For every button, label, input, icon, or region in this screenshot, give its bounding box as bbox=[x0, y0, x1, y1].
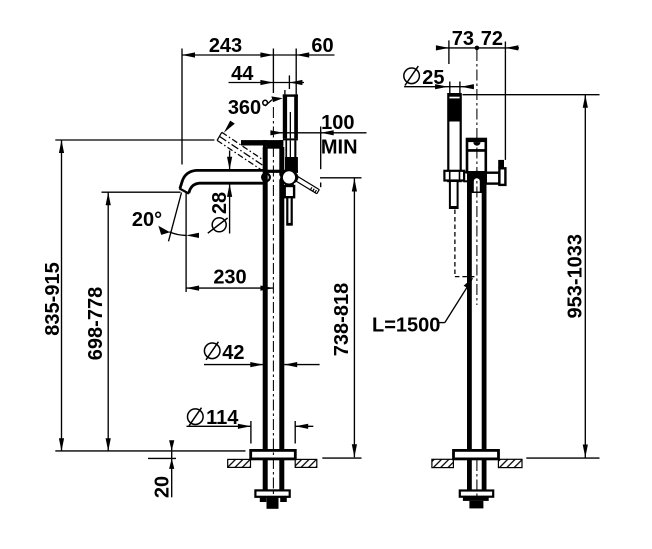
svg-text:42: 42 bbox=[222, 342, 244, 364]
svg-text:28: 28 bbox=[209, 192, 231, 214]
svg-text:230: 230 bbox=[213, 267, 246, 289]
svg-text:25: 25 bbox=[422, 67, 444, 89]
svg-text:360°: 360° bbox=[228, 97, 269, 119]
svg-text:738-818: 738-818 bbox=[331, 283, 353, 356]
svg-text:243: 243 bbox=[209, 35, 242, 57]
svg-text:72: 72 bbox=[481, 28, 503, 50]
svg-text:20°: 20° bbox=[132, 209, 162, 231]
svg-text:114: 114 bbox=[206, 407, 239, 429]
svg-text:L=1500: L=1500 bbox=[372, 315, 440, 337]
svg-text:20: 20 bbox=[151, 476, 173, 498]
svg-text:73: 73 bbox=[452, 28, 474, 50]
svg-text:MIN: MIN bbox=[321, 137, 358, 159]
svg-text:44: 44 bbox=[231, 63, 254, 85]
svg-text:698-778: 698-778 bbox=[85, 287, 107, 360]
svg-text:100: 100 bbox=[321, 112, 354, 134]
svg-text:60: 60 bbox=[311, 35, 333, 57]
svg-text:835-915: 835-915 bbox=[42, 262, 64, 335]
svg-text:953-1033: 953-1033 bbox=[564, 234, 586, 319]
